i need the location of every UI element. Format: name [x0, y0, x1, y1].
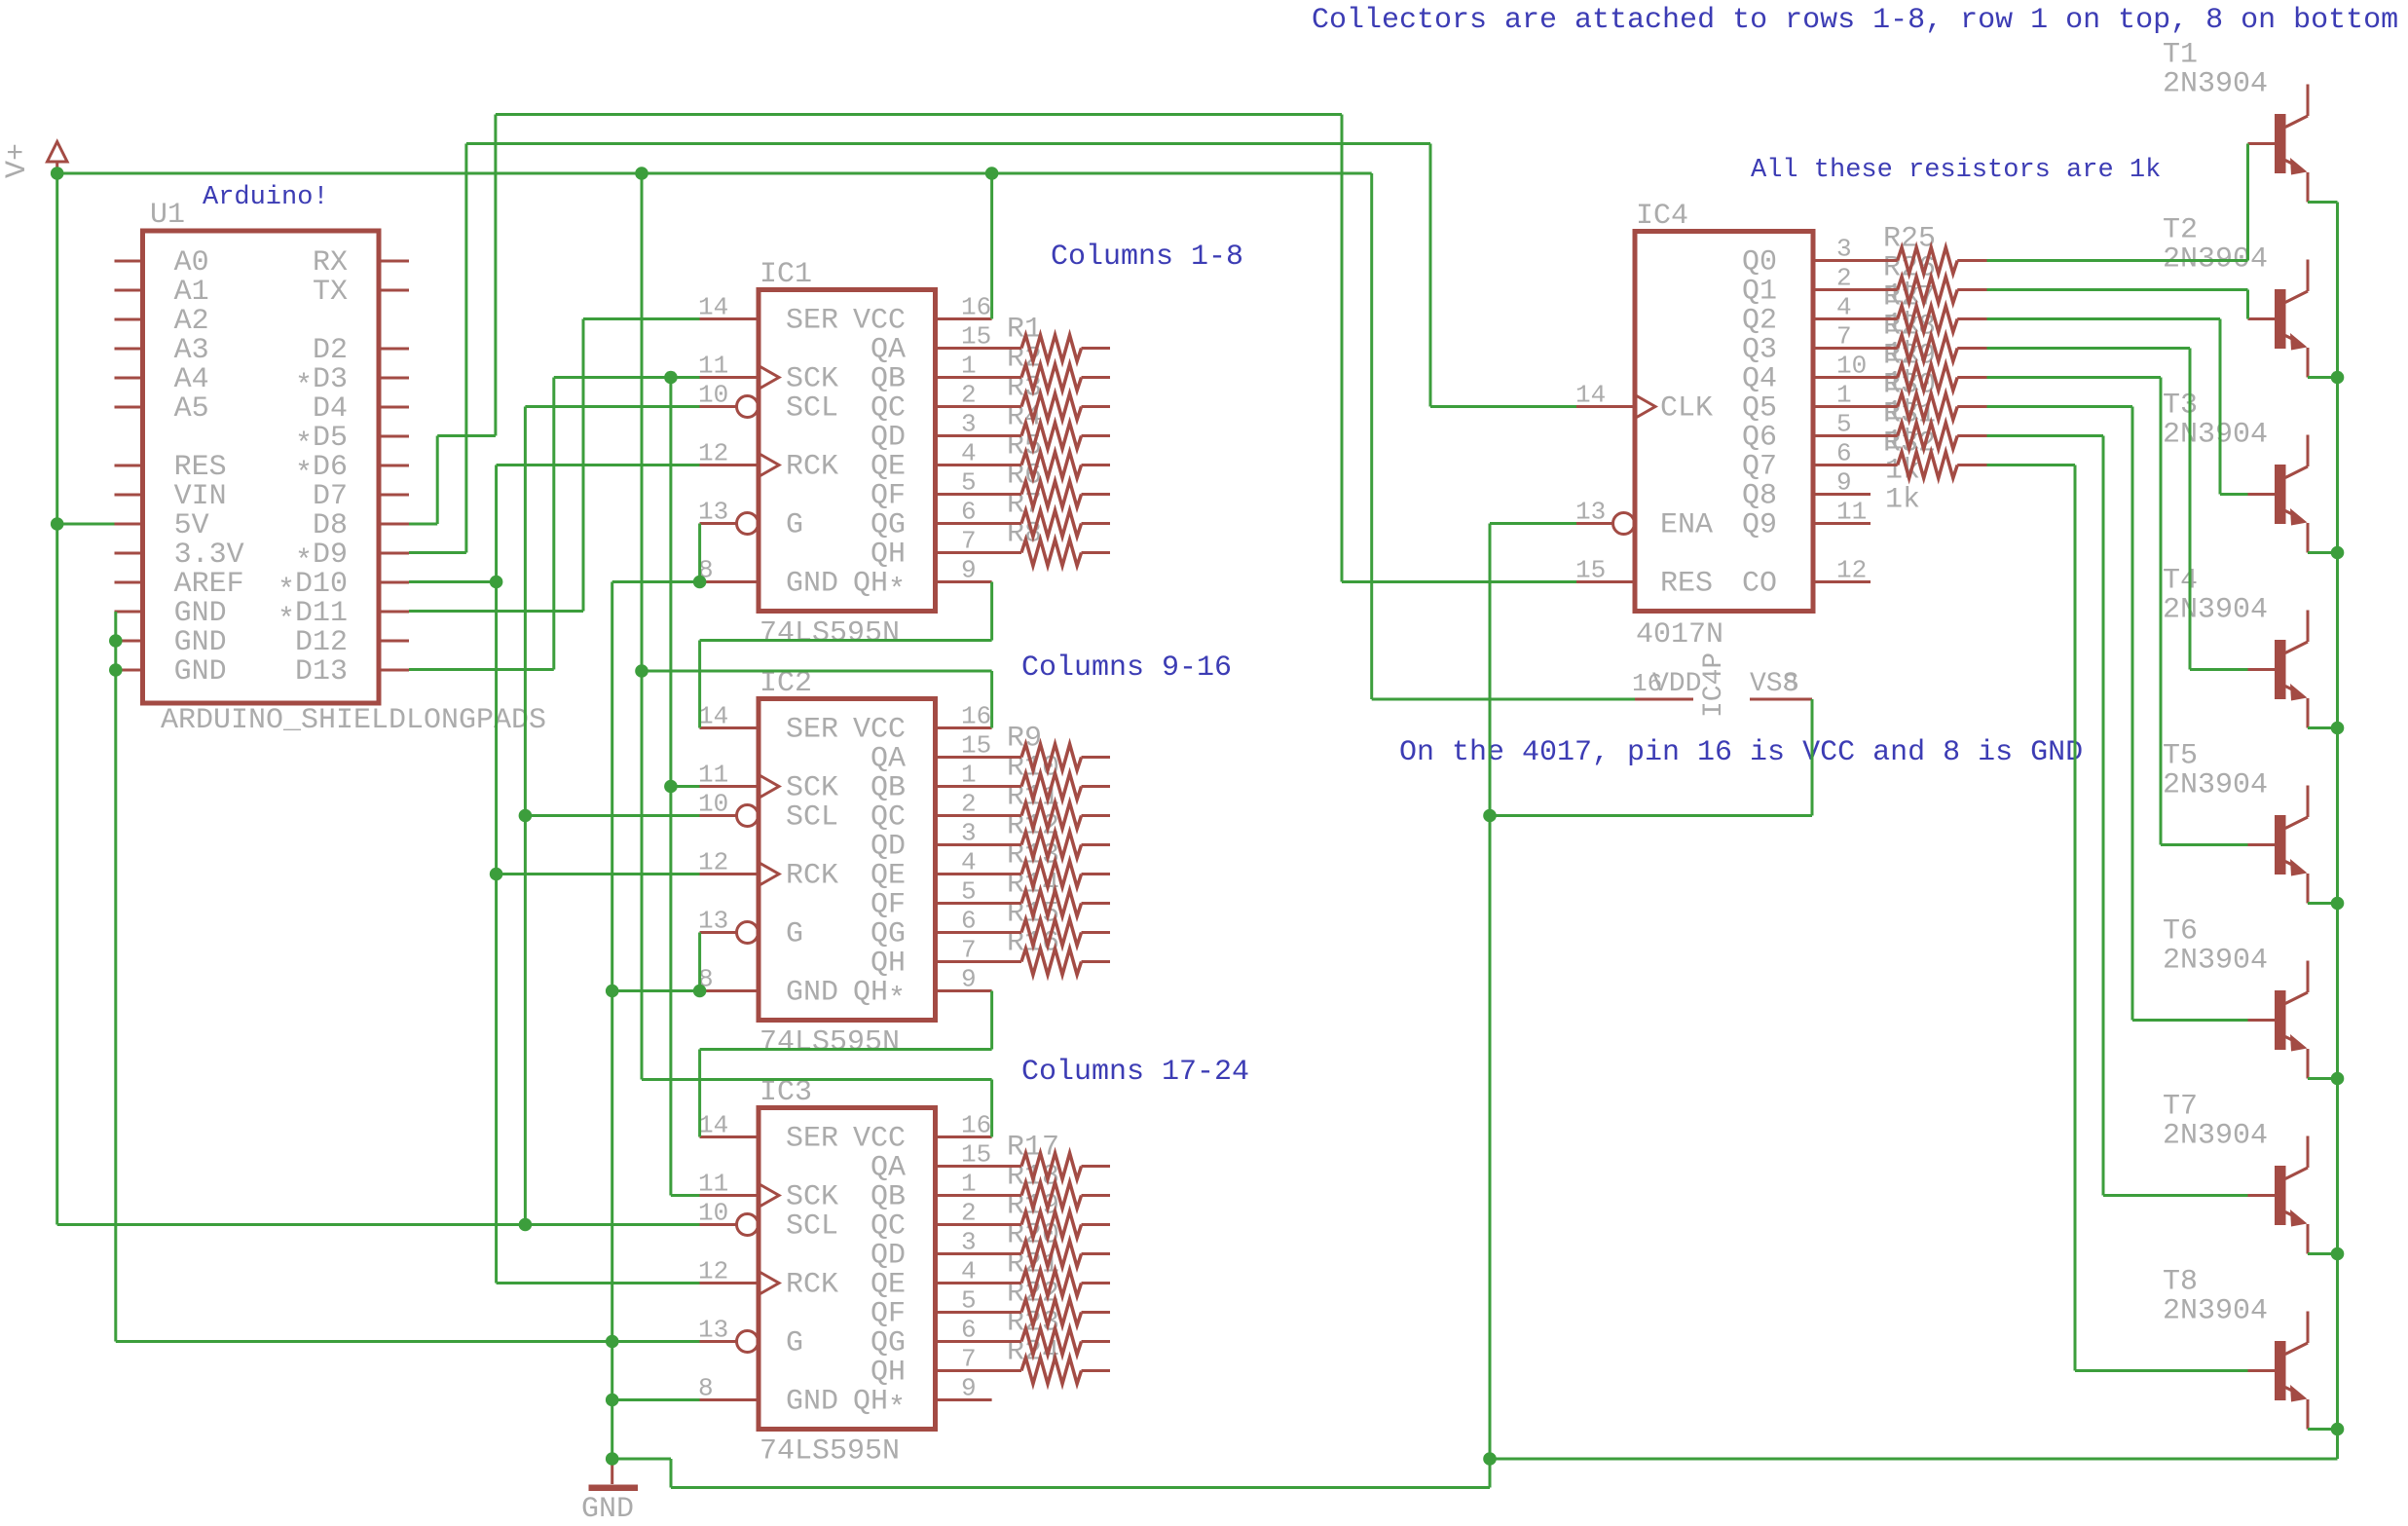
- svg-text:GND: GND: [174, 626, 227, 659]
- svg-text:GND: GND: [581, 1493, 634, 1526]
- svg-text:CO: CO: [1742, 568, 1777, 601]
- svg-text:2N3904: 2N3904: [2163, 419, 2268, 452]
- svg-text:Q1: Q1: [1742, 276, 1777, 309]
- svg-text:R25: R25: [1883, 223, 1936, 256]
- svg-text:IC4P: IC4P: [1699, 652, 1729, 718]
- svg-text:T4: T4: [2163, 565, 2198, 598]
- svg-text:G: G: [786, 918, 803, 951]
- svg-text:T3: T3: [2163, 390, 2198, 423]
- svg-text:D12: D12: [295, 626, 348, 659]
- svg-text:QE: QE: [871, 451, 906, 484]
- svg-text:QA: QA: [871, 1152, 906, 1185]
- svg-text:GND: GND: [174, 597, 227, 630]
- svg-text:RES: RES: [174, 451, 227, 484]
- svg-text:RCK: RCK: [786, 451, 838, 484]
- svg-text:2N3904: 2N3904: [2163, 68, 2268, 101]
- svg-text:RX: RX: [313, 246, 348, 279]
- svg-text:GND: GND: [174, 655, 227, 689]
- svg-text:T8: T8: [2163, 1266, 2198, 1299]
- svg-text:D8: D8: [313, 509, 348, 542]
- svg-text:QF: QF: [871, 1298, 906, 1331]
- svg-text:Q2: Q2: [1742, 305, 1777, 338]
- svg-text:Q4: Q4: [1742, 363, 1777, 396]
- svg-text:Arduino!: Arduino!: [203, 183, 329, 212]
- svg-text:A0: A0: [174, 246, 209, 279]
- svg-text:VCC: VCC: [853, 714, 906, 747]
- svg-text:SER: SER: [786, 1123, 838, 1156]
- svg-text:74LS595N: 74LS595N: [759, 1435, 900, 1469]
- svg-text:T7: T7: [2163, 1091, 2198, 1124]
- svg-text:QA: QA: [871, 743, 906, 776]
- svg-text:QD: QD: [871, 831, 906, 864]
- svg-text:VCC: VCC: [853, 305, 906, 338]
- svg-text:QB: QB: [871, 772, 906, 805]
- svg-text:SCK: SCK: [786, 363, 838, 396]
- svg-text:IC1: IC1: [759, 258, 812, 291]
- svg-text:Columns 9-16: Columns 9-16: [1021, 651, 1232, 685]
- svg-text:Q5: Q5: [1742, 392, 1777, 426]
- svg-text:D13: D13: [295, 655, 348, 689]
- svg-text:QF: QF: [871, 480, 906, 513]
- svg-text:3.3V: 3.3V: [174, 539, 244, 572]
- svg-text:QG: QG: [871, 509, 906, 542]
- svg-text:2N3904: 2N3904: [2163, 945, 2268, 978]
- svg-text:Q0: Q0: [1742, 246, 1777, 279]
- svg-text:SCL: SCL: [786, 801, 838, 835]
- svg-text:QB: QB: [871, 1181, 906, 1214]
- svg-text:QB: QB: [871, 363, 906, 396]
- svg-text:Q9: Q9: [1742, 509, 1777, 542]
- svg-text:1k: 1k: [1885, 484, 1920, 517]
- svg-text:Columns 1-8: Columns 1-8: [1051, 241, 1243, 274]
- svg-text:SCK: SCK: [786, 1181, 838, 1214]
- svg-text:VCC: VCC: [853, 1123, 906, 1156]
- svg-text:Q8: Q8: [1742, 480, 1777, 513]
- svg-text:ENA: ENA: [1660, 509, 1713, 542]
- svg-text:T1: T1: [2163, 39, 2198, 72]
- svg-text:Q7: Q7: [1742, 451, 1777, 484]
- svg-text:U1: U1: [150, 199, 185, 232]
- svg-text:QH: QH: [871, 539, 906, 572]
- svg-text:SCL: SCL: [786, 392, 838, 426]
- svg-text:A1: A1: [174, 276, 209, 309]
- svg-text:IC3: IC3: [759, 1076, 812, 1109]
- svg-text:V+: V+: [1, 143, 34, 178]
- svg-text:QE: QE: [871, 860, 906, 893]
- svg-text:2N3904: 2N3904: [2163, 1295, 2268, 1328]
- svg-text:GND: GND: [786, 1386, 838, 1419]
- svg-text:T5: T5: [2163, 740, 2198, 773]
- svg-text:QE: QE: [871, 1269, 906, 1302]
- svg-text:D7: D7: [313, 480, 348, 513]
- svg-text:Q3: Q3: [1742, 334, 1777, 367]
- svg-text:RCK: RCK: [786, 860, 838, 893]
- svg-text:TX: TX: [313, 276, 348, 309]
- svg-text:74LS595N: 74LS595N: [759, 1026, 900, 1060]
- svg-text:T6: T6: [2163, 915, 2198, 949]
- svg-text:2N3904: 2N3904: [2163, 769, 2268, 802]
- svg-text:AREF: AREF: [174, 568, 244, 601]
- svg-text:2N3904: 2N3904: [2163, 1120, 2268, 1153]
- svg-text:4017N: 4017N: [1636, 618, 1723, 651]
- svg-text:G: G: [786, 509, 803, 542]
- svg-text:ARDUINO_SHIELDLONGPADS: ARDUINO_SHIELDLONGPADS: [161, 704, 546, 737]
- svg-text:QG: QG: [871, 1327, 906, 1360]
- svg-text:IC4: IC4: [1636, 200, 1688, 233]
- svg-text:QF: QF: [871, 889, 906, 922]
- svg-text:5V: 5V: [174, 509, 209, 542]
- svg-text:GND: GND: [786, 977, 838, 1010]
- svg-text:On the 4017, pin 16 is VCC and: On the 4017, pin 16 is VCC and 8 is GND: [1399, 736, 2083, 769]
- svg-text:QC: QC: [871, 1210, 906, 1244]
- svg-text:R17: R17: [1007, 1132, 1059, 1165]
- svg-text:SCK: SCK: [786, 772, 838, 805]
- svg-text:A4: A4: [174, 363, 209, 396]
- svg-text:RCK: RCK: [786, 1269, 838, 1302]
- svg-text:74LS595N: 74LS595N: [759, 617, 900, 651]
- svg-text:VIN: VIN: [174, 480, 227, 513]
- svg-text:D4: D4: [313, 392, 348, 426]
- svg-text:A2: A2: [174, 305, 209, 338]
- svg-text:QD: QD: [871, 422, 906, 455]
- svg-text:2N3904: 2N3904: [2163, 594, 2268, 627]
- svg-text:A3: A3: [174, 334, 209, 367]
- svg-text:CLK: CLK: [1660, 392, 1713, 426]
- svg-text:QD: QD: [871, 1240, 906, 1273]
- svg-text:D2: D2: [313, 334, 348, 367]
- svg-text:QC: QC: [871, 801, 906, 835]
- svg-text:QA: QA: [871, 334, 906, 367]
- svg-text:RES: RES: [1660, 568, 1713, 601]
- svg-text:QC: QC: [871, 392, 906, 426]
- svg-text:Columns 17-24: Columns 17-24: [1021, 1056, 1249, 1089]
- svg-text:G: G: [786, 1327, 803, 1360]
- svg-text:Collectors are attached to row: Collectors are attached to rows 1-8, row…: [1312, 4, 2398, 37]
- svg-text:QG: QG: [871, 918, 906, 951]
- svg-text:Q6: Q6: [1742, 422, 1777, 455]
- svg-text:All these resistors are 1k: All these resistors are 1k: [1751, 156, 2161, 185]
- svg-text:QH: QH: [871, 1357, 906, 1390]
- svg-text:SER: SER: [786, 305, 838, 338]
- svg-text:A5: A5: [174, 392, 209, 426]
- svg-text:QH: QH: [871, 948, 906, 981]
- svg-text:SER: SER: [786, 714, 838, 747]
- svg-text:8: 8: [1783, 669, 1798, 698]
- svg-text:GND: GND: [786, 568, 838, 601]
- svg-text:VDD: VDD: [1652, 669, 1701, 699]
- svg-text:T2: T2: [2163, 214, 2198, 247]
- svg-text:SCL: SCL: [786, 1210, 838, 1244]
